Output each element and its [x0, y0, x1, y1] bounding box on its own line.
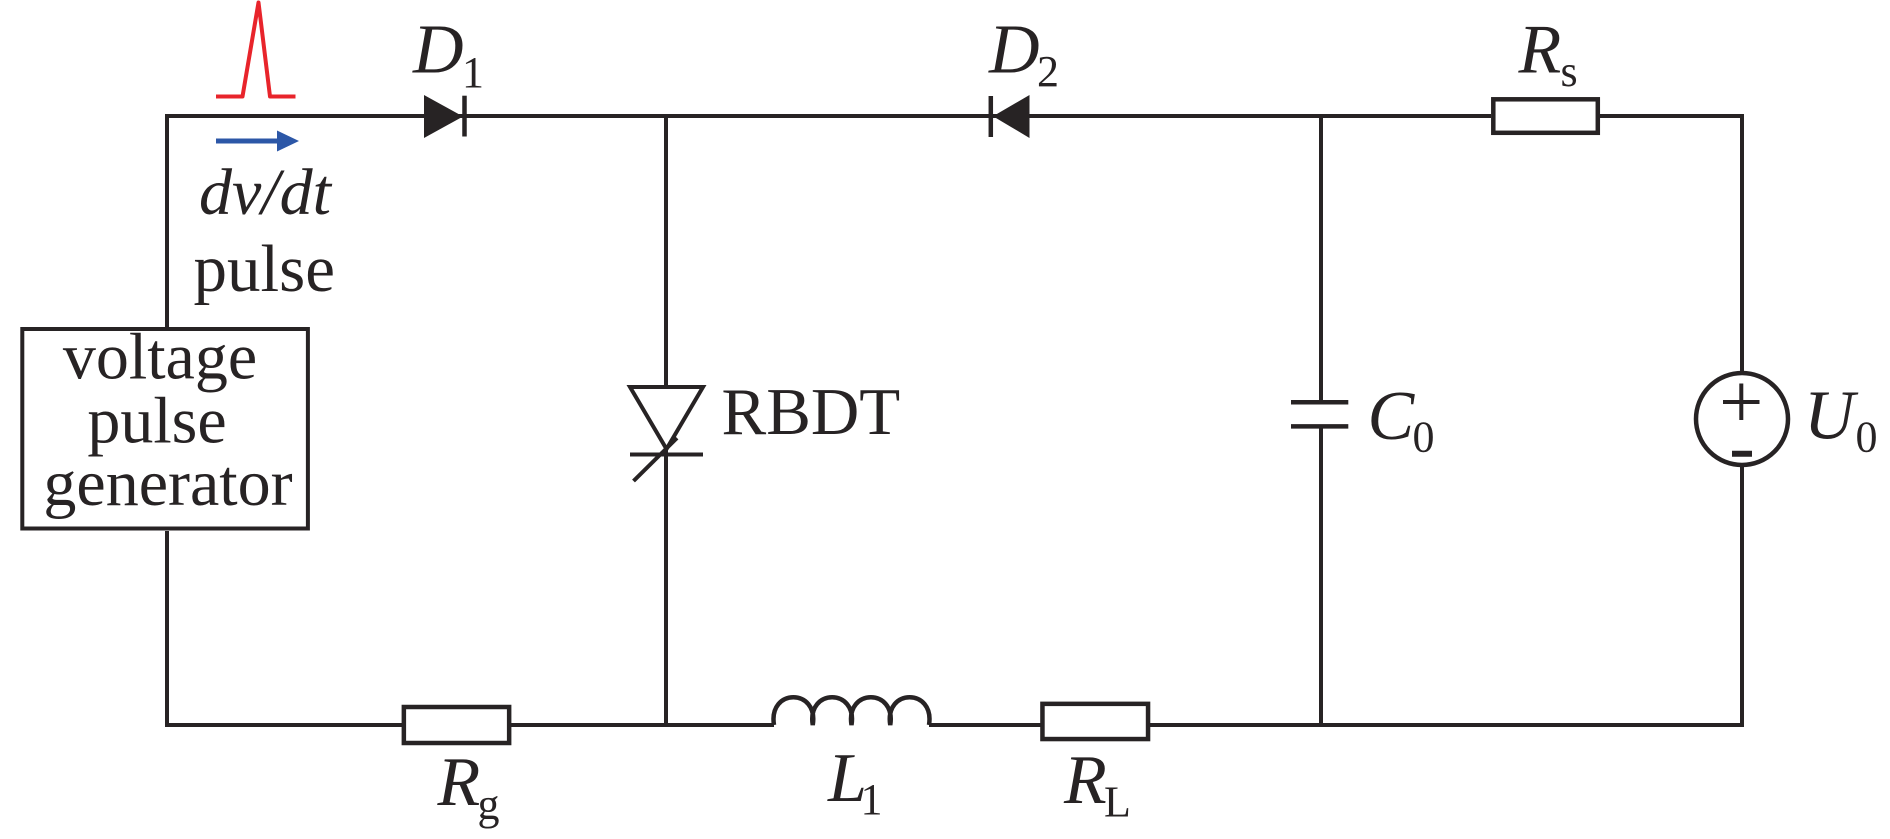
svg-text:R: R	[1063, 742, 1107, 819]
wire right vertical lower	[1740, 466, 1744, 727]
label D1	[412, 12, 484, 98]
svg-text:D: D	[988, 12, 1040, 89]
wire C0 branch upper	[1319, 116, 1323, 402]
svg-text:dv/dt: dv/dt	[199, 156, 333, 229]
svg-text:U: U	[1804, 378, 1859, 455]
label U0	[1804, 378, 1878, 462]
svg-text:g: g	[478, 780, 500, 829]
svg-text:0: 0	[1413, 413, 1435, 462]
svg-text:voltage: voltage	[63, 321, 257, 394]
svg-text:pulse: pulse	[194, 232, 335, 306]
voltage pulse generator box	[22, 329, 308, 529]
svg-text:1: 1	[462, 48, 484, 97]
label voltage pulse generator	[43, 321, 292, 521]
label Rg	[437, 744, 500, 829]
resistor RL	[1042, 704, 1148, 739]
diode D1	[424, 95, 465, 138]
svg-text:s: s	[1561, 47, 1578, 96]
svg-text:R: R	[1518, 12, 1562, 89]
diode D2	[991, 95, 1030, 138]
capacitor C0	[1291, 402, 1348, 426]
svg-text:2: 2	[1037, 47, 1059, 96]
RBDT thyristor	[630, 387, 703, 481]
label D2	[988, 12, 1059, 97]
svg-text:RBDT: RBDT	[722, 375, 901, 449]
label RL	[1063, 742, 1131, 827]
svg-text:generator: generator	[43, 447, 292, 520]
blue current direction arrow	[216, 131, 299, 152]
inductor L1	[774, 697, 930, 725]
svg-text:C: C	[1368, 378, 1416, 455]
svg-text:L: L	[1104, 778, 1131, 827]
red dv/dt pulse waveform	[216, 3, 296, 97]
svg-text:0: 0	[1856, 413, 1878, 462]
svg-text:D: D	[412, 12, 464, 89]
svg-text:1: 1	[861, 775, 883, 824]
resistor Rg	[404, 707, 509, 743]
label L1	[827, 740, 883, 824]
resistor Rs	[1493, 99, 1598, 133]
wire RBDT branch lower	[664, 449, 668, 725]
voltage source U0 circle	[1696, 373, 1788, 465]
svg-text:R: R	[437, 744, 481, 821]
wire C0 branch lower	[1319, 426, 1323, 725]
wire right vertical upper	[1740, 114, 1744, 372]
wire RBDT branch upper	[664, 116, 668, 387]
wire top horizontal	[167, 114, 1740, 118]
wire left vertical (generator to bottom)	[165, 531, 169, 727]
wire left vertical (generator to top)	[165, 114, 169, 327]
label Rs	[1518, 12, 1578, 97]
wire bottom horizontal	[165, 723, 1744, 727]
label C0	[1368, 378, 1435, 462]
